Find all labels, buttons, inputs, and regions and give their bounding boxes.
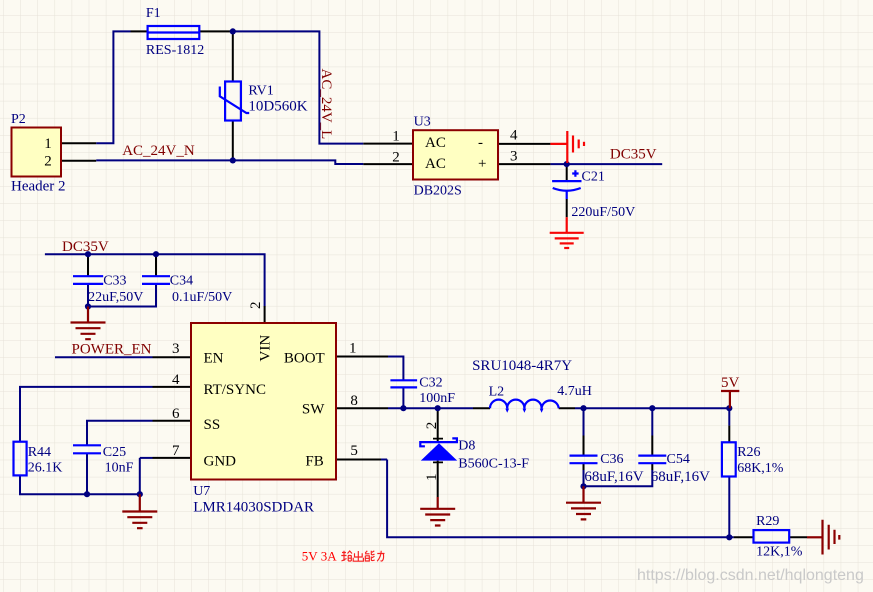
svg-text:R29: R29 xyxy=(756,514,779,529)
svg-text:AC_24V_L: AC_24V_L xyxy=(318,69,334,140)
svg-text:100nF: 100nF xyxy=(419,391,455,406)
svg-text:C36: C36 xyxy=(600,452,623,467)
svg-text:AC: AC xyxy=(425,135,446,151)
svg-text:U3: U3 xyxy=(414,115,431,130)
svg-text:68uF,16V: 68uF,16V xyxy=(651,469,710,485)
svg-text:5V: 5V xyxy=(721,375,740,391)
svg-text:4: 4 xyxy=(510,128,518,144)
svg-text:SRU1048-4R7Y: SRU1048-4R7Y xyxy=(472,358,572,374)
svg-text:DC35V: DC35V xyxy=(62,239,109,255)
svg-text:AC: AC xyxy=(425,156,446,172)
svg-text:P2: P2 xyxy=(11,112,26,127)
svg-text:1: 1 xyxy=(424,474,440,482)
svg-text:5: 5 xyxy=(350,443,358,459)
svg-text:10nF: 10nF xyxy=(105,461,134,476)
svg-text:-: - xyxy=(478,135,483,151)
svg-text:DC35V: DC35V xyxy=(610,146,657,162)
svg-text:1: 1 xyxy=(392,129,400,145)
svg-text:+: + xyxy=(478,156,486,172)
svg-text:3: 3 xyxy=(510,148,518,164)
svg-text:SS: SS xyxy=(204,417,221,433)
svg-text:EN: EN xyxy=(204,350,224,366)
svg-text:68K,1%: 68K,1% xyxy=(737,461,784,476)
svg-text:AC_24V_N: AC_24V_N xyxy=(122,143,195,159)
svg-text:SW: SW xyxy=(302,402,325,418)
svg-text:1: 1 xyxy=(349,340,357,356)
svg-text:U7: U7 xyxy=(193,484,210,499)
svg-text:B560C-13-F: B560C-13-F xyxy=(458,457,529,472)
svg-text:RES-1812: RES-1812 xyxy=(146,43,204,58)
svg-text:C54: C54 xyxy=(667,452,690,467)
svg-text:4: 4 xyxy=(172,372,180,388)
svg-text:2: 2 xyxy=(424,422,440,430)
svg-text:R26: R26 xyxy=(737,445,760,460)
svg-text:2: 2 xyxy=(248,302,264,310)
svg-text:RV1: RV1 xyxy=(248,84,273,99)
svg-text:LMR14030SDDAR: LMR14030SDDAR xyxy=(193,500,314,516)
svg-text:5V 3A: 5V 3A xyxy=(302,549,337,564)
svg-text:2: 2 xyxy=(44,154,52,170)
svg-text:VIN: VIN xyxy=(257,335,273,362)
svg-text:68uF,16V: 68uF,16V xyxy=(584,469,643,485)
svg-text:https://blog.csdn.net/hqlongte: https://blog.csdn.net/hqlongteng xyxy=(637,567,864,584)
svg-text:3: 3 xyxy=(172,341,180,357)
svg-text:R44: R44 xyxy=(28,445,51,460)
svg-text:F1: F1 xyxy=(146,6,161,21)
svg-text:GND: GND xyxy=(204,454,237,470)
svg-text:D8: D8 xyxy=(458,439,475,454)
svg-text:6: 6 xyxy=(172,406,180,422)
svg-text:BOOT: BOOT xyxy=(284,350,325,366)
svg-text:10D560K: 10D560K xyxy=(248,99,307,115)
svg-text:0.1uF/50V: 0.1uF/50V xyxy=(172,290,232,305)
svg-text:C33: C33 xyxy=(103,273,126,288)
svg-text:7: 7 xyxy=(172,443,180,459)
svg-text:2: 2 xyxy=(392,149,400,165)
svg-text:C34: C34 xyxy=(170,273,193,288)
svg-text:1: 1 xyxy=(44,136,52,152)
svg-text:Header 2: Header 2 xyxy=(11,178,66,194)
svg-text:RT/SYNC: RT/SYNC xyxy=(204,382,266,398)
svg-text:26.1K: 26.1K xyxy=(28,461,63,476)
svg-text:POWER_EN: POWER_EN xyxy=(72,342,152,358)
svg-text:12K,1%: 12K,1% xyxy=(756,545,803,560)
svg-text:DB202S: DB202S xyxy=(414,183,462,198)
svg-text:8: 8 xyxy=(350,393,358,409)
svg-text:4.7uH: 4.7uH xyxy=(557,384,592,399)
svg-text:C25: C25 xyxy=(103,445,126,460)
svg-text:22uF,50V: 22uF,50V xyxy=(88,290,143,305)
svg-text:220uF/50V: 220uF/50V xyxy=(571,205,635,220)
svg-text:C21: C21 xyxy=(582,170,605,185)
svg-text:C32: C32 xyxy=(419,376,442,391)
svg-text:FB: FB xyxy=(305,454,323,470)
svg-text:L2: L2 xyxy=(489,385,505,400)
